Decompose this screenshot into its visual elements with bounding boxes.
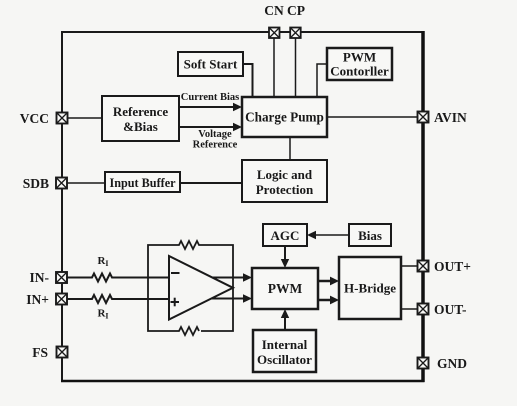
svg-text:GND: GND	[437, 356, 467, 371]
svg-text:Logic and: Logic and	[257, 167, 313, 182]
block Charge Pump	[242, 97, 327, 137]
wire IN+ pin to op-amp with resistor Ri	[62, 295, 169, 303]
wire H-Bridge to OUT- pin	[401, 308, 418, 310]
svg-text:Current Bias: Current Bias	[181, 92, 239, 103]
svg-text:FS: FS	[32, 345, 48, 360]
svg-text:PWM: PWM	[268, 281, 303, 296]
svg-text:Charge Pump: Charge Pump	[245, 110, 324, 125]
svg-text:AVIN: AVIN	[434, 110, 467, 125]
outer boundary top border	[61, 31, 425, 33]
svg-text:AGC: AGC	[271, 228, 300, 243]
block PWM Contorller	[327, 48, 392, 80]
svg-text:Reference: Reference	[193, 140, 238, 151]
pin FS	[57, 347, 68, 358]
svg-text:Input Buffer: Input Buffer	[109, 176, 176, 190]
svg-text:PWM: PWM	[343, 50, 376, 65]
svg-text:H-Bridge: H-Bridge	[344, 281, 396, 296]
svg-text:Bias: Bias	[358, 228, 382, 243]
pin AVIN	[418, 112, 429, 123]
arrow Voltage Reference: Reference&Bias to Charge Pump	[179, 123, 242, 131]
arrow Internal Oscillator to PWM	[281, 309, 289, 330]
svg-text:Protection: Protection	[256, 182, 314, 197]
pin IN-	[56, 272, 67, 283]
wire H-Bridge to OUT+ pin	[401, 265, 418, 267]
block Logic and Protection	[242, 160, 327, 202]
arrow PWM to H-Bridge upper	[318, 277, 339, 286]
pin SDB	[56, 178, 67, 189]
arrow AGC to PWM	[281, 246, 289, 268]
wire IN- pin to op-amp with resistor Ri	[62, 274, 169, 282]
outer boundary right border	[421, 31, 425, 382]
block Internal Oscillator	[253, 330, 316, 372]
wire Soft Start to Charge Pump	[243, 64, 253, 97]
svg-text:OUT+: OUT+	[434, 259, 471, 274]
wire Charge Pump to AVIN pin	[327, 116, 418, 118]
wire VCC pin to Reference&Bias	[62, 117, 102, 119]
block Input Buffer	[105, 172, 180, 192]
svg-text:Oscillator: Oscillator	[257, 352, 312, 367]
wire Charge Pump to Logic and Protection	[289, 137, 291, 160]
block Soft Start	[178, 52, 243, 76]
svg-text:&Bias: &Bias	[123, 119, 158, 134]
wire CP pin to Charge Pump	[295, 37, 297, 97]
wire SDB pin to Input Buffer	[62, 182, 105, 184]
wire Input Buffer to Logic and Protection	[180, 182, 242, 184]
svg-text:Soft Start: Soft Start	[184, 57, 238, 72]
pin GND	[418, 358, 429, 369]
wire CN pin to Charge Pump	[273, 37, 275, 97]
svg-text:Contorller: Contorller	[330, 64, 389, 79]
feedback loop with resistors around op-amp	[148, 241, 233, 335]
pin VCC	[57, 113, 68, 124]
pin IN+	[56, 294, 67, 305]
pin CN	[269, 28, 280, 39]
svg-text:Reference: Reference	[113, 104, 169, 119]
pin OUT-	[418, 304, 429, 315]
svg-text:IN-: IN-	[30, 270, 50, 285]
arrow PWM to H-Bridge lower	[318, 296, 339, 305]
outer boundary bottom border	[61, 380, 425, 383]
block Bias	[349, 224, 391, 246]
arrow op-amp output lower to PWM	[200, 294, 252, 302]
op-amp plus sign	[171, 298, 180, 307]
svg-text:Internal: Internal	[262, 337, 308, 352]
pin OUT+	[418, 261, 429, 272]
outer boundary left border	[61, 31, 63, 382]
op-amp minus sign	[171, 272, 180, 274]
svg-text:OUT-: OUT-	[434, 302, 467, 317]
svg-text:VCC: VCC	[20, 111, 49, 126]
svg-text:SDB: SDB	[23, 176, 49, 191]
pin CP	[290, 28, 301, 39]
wire PWM Controller to Charge Pump	[317, 64, 327, 97]
svg-text:Voltage: Voltage	[198, 129, 232, 140]
op-amp U1 triangle	[169, 256, 233, 320]
svg-text:CP: CP	[287, 3, 305, 18]
block H-Bridge	[339, 257, 401, 319]
arrow Bias to AGC	[307, 231, 349, 239]
arrow Current Bias: Reference&Bias to Charge Pump	[179, 103, 242, 111]
svg-text:CN: CN	[264, 3, 284, 18]
block AGC	[263, 224, 307, 246]
svg-text:IN+: IN+	[26, 292, 49, 307]
block PWM	[252, 268, 318, 309]
arrow op-amp output upper to PWM	[200, 273, 252, 281]
block Reference & Bias	[102, 96, 179, 141]
